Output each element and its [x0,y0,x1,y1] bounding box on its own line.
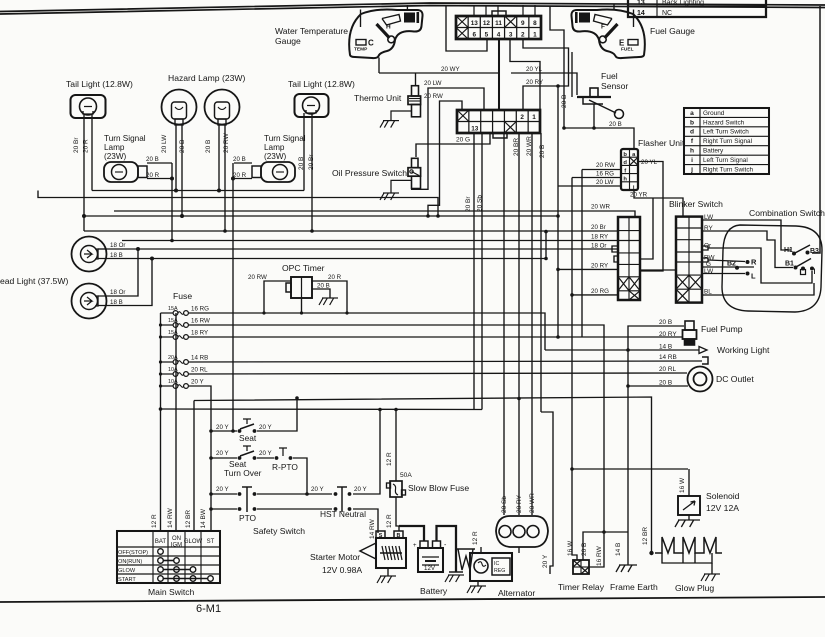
wire OPC right 20R [312,281,347,313]
gauge G1 bottom pin wire [378,58,380,74]
svg-text:20 Y: 20 Y [191,379,204,386]
main switch contacts OFF row [158,549,164,555]
svg-text:20 B: 20 B [609,121,622,128]
svg-text:ON: ON [172,536,181,542]
fuse F1 15A 16 RG [161,312,174,314]
fuse F2 15A 16 RW [161,324,174,326]
svg-text:20 R: 20 R [328,274,342,281]
svg-text:LW: LW [704,214,714,221]
DC outlet [688,367,713,392]
svg-text:Left Turn Switch: Left Turn Switch [703,129,749,136]
main switch contacts GLOW row [158,567,164,573]
contact R [746,260,750,264]
svg-text:Or: Or [704,243,712,250]
wire 16RG row jog to 14B working light [190,313,545,350]
starter terminals S B [376,531,385,538]
gauge G1 inner scale window [382,15,401,26]
wire 20RW hazard2 [224,125,226,231]
svg-text:15A: 15A [168,306,178,312]
svg-text:i: i [691,157,693,164]
svg-text:B3: B3 [810,248,819,255]
main switch contacts START row [158,576,164,582]
svg-text:14 RB: 14 RB [659,354,677,361]
svg-text:GLOW: GLOW [184,539,203,545]
wire 20Br tail1 [83,114,85,231]
svg-text:20 B: 20 B [659,380,672,387]
gauge G2 bottom pin wire [571,52,573,97]
turn signal lamp E5 [104,162,138,182]
wire 18B hl2 [98,259,152,306]
svg-text:j: j [690,166,693,173]
wire tail-light bus [92,190,304,192]
hazard lamp E2 [162,90,197,125]
blinker notch Or [702,246,708,250]
svg-text:H: H [386,24,391,31]
svg-text:B: B [397,533,401,539]
head light E8 [72,284,107,319]
glow plug lower bus [662,553,712,563]
svg-text:14 B: 14 B [615,543,622,556]
svg-text:Right Turn Signal: Right Turn Signal [703,138,752,145]
wire long vertical 20Sb to alternator connector [503,133,505,515]
fuse F5 10A 20 RL [161,373,174,375]
svg-text:20 Br: 20 Br [73,137,80,153]
svg-text:20 RL: 20 RL [659,366,676,373]
wire 20B to DC outlet [628,385,688,387]
svg-text:16 W: 16 W [567,540,574,556]
svg-text:20 LW: 20 LW [161,134,168,153]
svg-text:12: 12 [483,20,491,27]
svg-text:Fuel: Fuel [601,71,618,81]
svg-text:20 B: 20 B [317,283,330,290]
svg-text:16 RW: 16 RW [191,318,210,325]
svg-text:d: d [690,129,694,136]
wire turnsig2 vertical down to seat circuit [232,163,234,431]
svg-text:RY: RY [704,225,713,232]
wire 20Y fuse row to seat circuit [190,386,211,531]
svg-text:FUEL: FUEL [621,47,634,53]
gauge G1 C mark [356,40,366,46]
blinker switch connector [676,217,702,303]
wire solenoid 16W [688,469,690,496]
wire flasher h 16RG [572,177,621,179]
svg-text:18 RY: 18 RY [191,330,208,337]
fuse supply bus vertical 12R [160,313,162,531]
wire R-PTO right [293,458,307,494]
svg-text:OFF(STOP): OFF(STOP) [118,550,148,556]
svg-text:B1: B1 [785,261,794,268]
wire 18Or hl1 [98,248,107,250]
svg-text:b: b [690,119,694,126]
svg-text:Alternator: Alternator [498,588,535,598]
svg-text:18 B: 18 B [110,299,123,306]
svg-text:IC: IC [494,561,499,567]
timer relay [573,560,589,574]
head light E7 [72,237,107,272]
wire 20LW hazard [175,125,177,192]
svg-text:18 B: 18 B [110,252,123,259]
svg-text:NC: NC [662,10,672,17]
svg-text:20 Sb: 20 Sb [477,195,484,212]
svg-text:16 W: 16 W [679,477,686,493]
solenoid [678,496,700,515]
starter ground [387,568,389,576]
svg-text:Main Switch: Main Switch [148,587,195,597]
svg-text:12V 0.98A: 12V 0.98A [322,565,362,575]
fuse F6 10A 20 Y [161,385,174,387]
svg-text:Flasher Unit: Flasher Unit [638,138,685,148]
wire 20G J2 to oil pressure switch [416,133,490,157]
svg-text:B2: B2 [727,261,736,268]
svg-text:h: h [623,177,627,183]
wire vertical 20B tap down [557,86,559,337]
connector J2 key tab [493,133,507,138]
connector J1 key tab [492,11,506,16]
wire 20R turnsig1 [147,178,172,180]
wire 14RW vertical through fuse pins [175,313,177,531]
wire thermo unit stub [415,73,417,86]
hazard lamp E3 [205,90,240,125]
svg-text:20 Y: 20 Y [354,486,367,493]
wire LW2 to L contact [703,273,745,275]
wire 20B turnsig2 [234,162,252,164]
svg-text:1: 1 [533,32,537,39]
svg-text:Right Turn Switch: Right Turn Switch [703,166,754,173]
thermo unit ground [391,111,412,121]
flasher unit relay [621,149,638,190]
svg-text:20 Sb: 20 Sb [501,496,508,513]
wire vertical flasher f 20RW down [581,170,583,338]
svg-text:Lamp: Lamp [264,143,285,152]
svg-text:12 R: 12 R [151,514,158,528]
connector J2 blocked pin X top-left [457,110,469,122]
svg-text:20 Y: 20 Y [216,486,229,493]
OPC timer [291,277,312,298]
blinker notch RW [702,258,708,262]
wires J1 top pins to supply rule [473,5,475,16]
seat switch [211,430,237,432]
wire 12R bus y409 [161,408,483,411]
svg-text:50A: 50A [400,472,412,479]
wire 20BR long vertical to alternator [518,133,520,515]
svg-text:20 LW: 20 LW [424,80,442,87]
connector J1 blocked pin X top-5th [505,16,517,28]
svg-text:11: 11 [495,20,502,27]
oil pressure switch S2 [412,158,419,167]
wire 20B gauge loop down [550,6,564,128]
svg-text:20 Y: 20 Y [216,424,229,431]
glow plug ground [711,563,713,574]
PTO switch [211,493,237,495]
frame earth [616,565,637,572]
wire OPC left 20RW [264,281,291,313]
svg-text:14: 14 [637,10,645,17]
svg-text:F: F [601,24,605,31]
wire 18Or bus to J3 [107,248,618,250]
wire 20Br below J2 [473,133,475,410]
svg-text:20 YL: 20 YL [641,159,658,166]
svg-text:1: 1 [532,114,536,121]
svg-text:16 RW: 16 RW [596,545,603,566]
wire flasher 20YL to right loop [638,162,663,272]
svg-text:20 B: 20 B [659,319,672,326]
contact B1 [794,266,798,270]
svg-text:S: S [379,533,383,539]
svg-text:BL: BL [704,289,712,296]
svg-text:12 BR: 12 BR [642,527,649,545]
svg-text:Hazard Switch: Hazard Switch [703,119,745,126]
svg-text:Working Light: Working Light [717,345,770,355]
wire timer relay 20Y feed [541,412,553,574]
svg-text:20 B: 20 B [561,95,568,108]
bottom page rule [0,597,825,602]
wire J1 pin9 staple 20RY to J2 pin2 [523,39,569,110]
wire J1 pin4 to J2 trunk [498,39,500,110]
svg-text:18 Or: 18 Or [110,289,125,296]
gauge G1 wires to rule [360,10,362,28]
gauge G1 needle [377,24,390,38]
svg-text:Blinker Switch: Blinker Switch [669,199,723,209]
wire vertical link 20Br to 18B [545,232,547,259]
svg-text:Ground: Ground [703,110,725,117]
lever H1-B3 [795,245,810,253]
svg-text:20 B: 20 B [233,156,246,163]
svg-text:PTO: PTO [239,513,257,523]
battery ground [449,571,463,573]
connector J1 blocked pin X bottom-left [456,28,468,40]
wire 14B to working light arrow [545,349,699,351]
wire alternator B 12R [480,547,482,553]
svg-text:3: 3 [509,32,513,39]
working light arrow [699,347,707,354]
svg-text:20 BR: 20 BR [513,138,520,156]
wire G to B2 [703,266,754,268]
svg-text:20 YR: 20 YR [630,192,648,199]
wire 20YL J1 to fuel sensor [511,73,577,95]
fuel sensor [577,96,611,98]
svg-text:20 R: 20 R [146,172,160,179]
svg-text:l: l [814,269,816,276]
svg-text:20 Y: 20 Y [542,554,549,568]
table connector pin legend (13 Back Lighting / 14 NC) [628,0,766,17]
svg-text:14 RW: 14 RW [369,518,376,539]
thermo unit S1 [412,86,419,96]
fuel pump [685,321,694,330]
wire bus y197 [38,191,438,217]
svg-text:Battery: Battery [420,586,448,596]
svg-text:6-M1: 6-M1 [196,603,221,615]
svg-text:20 Br: 20 Br [465,196,472,212]
wire top supply rule double line [0,3,825,12]
wire 20B vertical below J2 [540,133,542,412]
svg-text:L: L [751,272,756,281]
gauge G2 wires to rule [633,10,635,28]
wire 18RY to J3 [122,240,618,242]
svg-text:Starter Motor: Starter Motor [310,552,360,562]
svg-text:2: 2 [520,114,524,121]
combination switch body outline [722,225,822,312]
svg-text:13: 13 [471,20,479,27]
contact B3 [806,251,810,255]
gauge water temperature G1 body [349,10,422,59]
svg-text:20 B: 20 B [298,157,305,170]
svg-text:20 RL: 20 RL [191,367,208,374]
svg-text:12V: 12V [424,565,436,572]
svg-text:Timer Relay: Timer Relay [558,582,605,592]
svg-text:Turn Signal: Turn Signal [264,134,306,143]
svg-text:Lamp: Lamp [104,143,125,152]
wire solenoid feed y469 [572,468,688,470]
table flasher terminal legend [684,108,769,174]
wire BL [703,283,814,295]
wire right-edge vertical to combination switch [812,6,820,253]
wire bus y216 [84,215,558,217]
wire main switch GLOW 12BR [193,401,195,532]
wire HST lower right to starter S [353,509,378,533]
svg-text:d: d [623,160,627,166]
wire 18RY 20RY row to fuel pump [190,336,683,338]
svg-text:20 WR: 20 WR [529,493,536,513]
glow plug element [649,551,653,555]
svg-text:12 R: 12 R [386,452,393,466]
svg-text:14 B: 14 B [659,344,672,351]
svg-text:ead Light (37.5W): ead Light (37.5W) [0,276,68,286]
OPC ground [319,298,338,305]
svg-text:4: 4 [497,32,501,39]
svg-text:Left Turn Signal: Left Turn Signal [703,157,748,164]
turn signal lamp E6 [261,162,295,182]
wire G1 left pin loop to J1 pin5 [446,5,487,51]
svg-text:R: R [751,258,757,267]
svg-text:14 BW: 14 BW [200,508,207,528]
solenoid ground [688,515,690,520]
gauge fuel G2 body [571,10,644,59]
svg-text:R-PTO: R-PTO [272,462,298,472]
contact I pair [801,267,805,271]
svg-text:Safety Switch: Safety Switch [253,526,305,536]
svg-text:ON(RUN): ON(RUN) [118,559,142,565]
svg-text:Gauge: Gauge [275,36,301,46]
svg-text:12 R: 12 R [386,514,393,528]
svg-text:20 WR: 20 WR [591,204,610,211]
wire flasher f 20RW [582,169,621,171]
alternator pulley [458,549,473,570]
gauge G2 F indicator box [579,13,590,23]
wire Or staircase to I [708,248,812,283]
svg-text:20 Br: 20 Br [308,154,315,170]
wire 20WR to J3 [114,211,635,217]
wire 20RG to J3 [572,294,618,296]
wire 20B turnsig1 [147,162,172,164]
svg-text:13: 13 [637,0,645,7]
svg-text:C: C [368,39,374,48]
wire J3 to blinker switch [640,269,676,271]
svg-text:2: 2 [521,32,525,39]
svg-text:DC Outlet: DC Outlet [716,374,754,384]
svg-text:20 B: 20 B [539,145,546,158]
svg-text:6: 6 [472,32,476,39]
wire 20WR long vertical to alternator [531,133,533,515]
svg-text:20 B: 20 B [581,543,588,556]
svg-text:20 Y: 20 Y [259,424,272,431]
svg-text:20 Y: 20 Y [259,450,272,457]
svg-text:Fuel Pump: Fuel Pump [701,324,743,334]
svg-text:Thermo Unit: Thermo Unit [354,93,402,103]
svg-text:H1: H1 [784,247,793,254]
wire J1 pin3 staple to J2 pin1 [510,39,540,110]
main switch table [117,531,220,583]
svg-text:Solenoid: Solenoid [706,491,740,501]
lever B1-I [796,259,811,268]
svg-text:20 LW: 20 LW [596,179,614,186]
battery lead positive [399,526,424,541]
svg-text:Frame Earth: Frame Earth [610,582,658,592]
svg-text:20 RW: 20 RW [248,274,267,281]
svg-text:20 RW: 20 RW [424,93,443,100]
wire 20R tail1 [91,114,93,191]
wire 20RY to J3 [558,268,618,270]
svg-text:b: b [623,152,627,158]
svg-text:20 WY: 20 WY [441,66,460,73]
fuse F4 20A 14 RB [161,361,174,363]
svg-text:BAT: BAT [155,539,167,545]
battery [418,548,443,572]
svg-text:(23W): (23W) [264,152,287,161]
wire 20Sb below J2 [481,133,483,410]
svg-text:20 B: 20 B [146,156,159,163]
seat turn over switch [211,457,237,459]
svg-text:G: G [706,261,711,268]
svg-text:E: E [619,39,625,48]
tail light lamp E1 [71,95,106,118]
oil pressure switch ground [391,180,412,193]
wire PTO lower right to HST [257,508,332,510]
wire 20RL row to DC outlet [190,373,687,374]
svg-text:START: START [118,577,136,583]
svg-text:Turn Over: Turn Over [224,468,262,478]
wire PTO lower left [211,508,237,510]
svg-text:20 Br: 20 Br [591,224,606,231]
flasher unit blocked pin X [630,157,639,165]
wire timer relay 20B [583,532,628,560]
svg-text:Glow Plug: Glow Plug [675,583,714,593]
svg-text:LW: LW [704,268,714,275]
svg-text:Combination Switch: Combination Switch [749,208,825,218]
wire 20YR branch to connector J3 [640,198,653,259]
svg-text:16 RG: 16 RG [191,306,209,313]
svg-text:OPC Timer: OPC Timer [282,263,325,273]
svg-text:IGM: IGM [171,543,182,549]
svg-text:16 RG: 16 RG [596,171,614,178]
wire OPC bottom stem [301,298,303,313]
svg-text:REG: REG [494,568,505,574]
svg-text:12 R: 12 R [472,531,479,545]
gauge G2 needle [605,24,618,38]
svg-text:20 WR: 20 WR [526,136,533,156]
wire 16RW row to timer relay 16RW [190,325,604,567]
svg-text:14 RW: 14 RW [167,507,174,528]
connector J3 key notch [612,246,618,252]
svg-text:20 B: 20 B [205,140,212,153]
wire LW to H1 [703,220,791,250]
main switch contacts ON row [158,558,164,564]
fuse F3 15A 18 RY [161,336,174,338]
svg-text:18 RY: 18 RY [591,234,608,241]
wire 20B hazard2 [218,125,220,192]
svg-text:13: 13 [471,126,479,133]
svg-text:Sensor: Sensor [601,81,628,91]
svg-text:12V 12A: 12V 12A [706,503,739,513]
